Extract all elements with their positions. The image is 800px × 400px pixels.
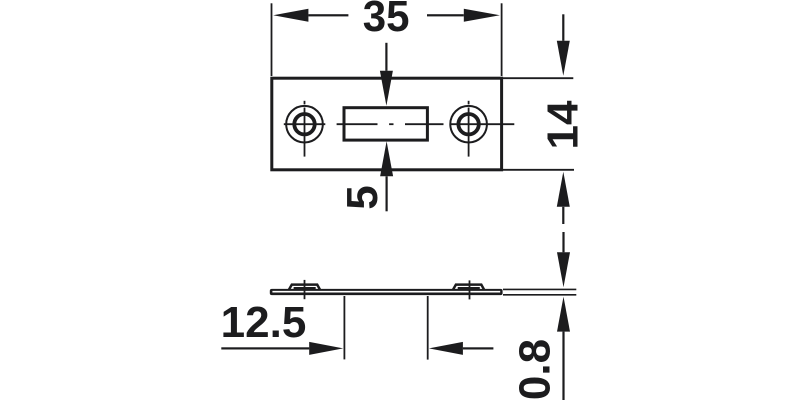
side view dimple right inner line bbox=[458, 287, 480, 289]
side view dimple left inner line bbox=[294, 287, 316, 289]
dim 12.5 extension line right bbox=[427, 296, 429, 360]
dim 0.8 extension line bottom bbox=[503, 294, 576, 296]
hole H2 centerlines bbox=[450, 101, 515, 157]
slot outline bbox=[344, 108, 427, 140]
dim 14 extension line bottom bbox=[503, 169, 574, 171]
dim 12.5 arrow right (points left) bbox=[429, 342, 494, 355]
side view centerline left bbox=[304, 280, 306, 299]
dim 35 arrow left bbox=[273, 9, 348, 22]
svg-text:5: 5 bbox=[338, 185, 387, 209]
svg-text:12.5: 12.5 bbox=[221, 298, 307, 347]
hole H1 (left, countersunk) bbox=[286, 106, 323, 143]
dim 0.8 arrow bottom (up) bbox=[557, 297, 570, 400]
dim 5 arrow top (down) bbox=[380, 43, 393, 106]
svg-text:35: 35 bbox=[363, 0, 410, 41]
dim 12.5 arrow left (points right) bbox=[221, 342, 343, 355]
side view plate bar bbox=[270, 289, 503, 295]
svg-text:0.8: 0.8 bbox=[511, 339, 560, 400]
side view centerline right bbox=[469, 280, 471, 299]
dim 0.8 arrow top (down) bbox=[557, 232, 570, 287]
hole H2 (right, countersunk) bbox=[450, 106, 487, 143]
dim 14 arrow top (down) bbox=[557, 14, 570, 76]
dim 5 arrow bottom (up) bbox=[380, 141, 393, 211]
dim 35 extension line right bbox=[501, 3, 503, 76]
dim 0.8 extension line top bbox=[503, 288, 576, 290]
dim 35 extension line left bbox=[271, 3, 273, 76]
dim 35 arrow right bbox=[427, 9, 500, 22]
slot centerline bbox=[337, 123, 444, 125]
plate outline (top view) bbox=[272, 78, 502, 170]
dim 14 extension line top bbox=[503, 77, 573, 79]
dim 12.5 extension line left bbox=[343, 296, 345, 359]
side view dimple left bbox=[289, 285, 321, 291]
side view dimple right bbox=[453, 285, 485, 291]
hole H1 centerlines bbox=[284, 101, 326, 157]
side view plate core line bbox=[272, 291, 500, 293]
dim 14 arrow bottom (up) bbox=[557, 172, 570, 224]
svg-text:14: 14 bbox=[539, 100, 588, 149]
